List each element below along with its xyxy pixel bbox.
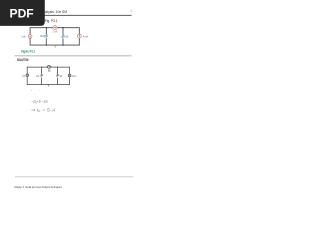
svg-text:4 mA: 4 mA bbox=[83, 35, 88, 39]
svg-text:SOLUTION: SOLUTION bbox=[17, 58, 28, 62]
svg-text:Chapter 3: Nodal and Loop Anal: Chapter 3: Nodal and Loop Analysis Techn… bbox=[14, 185, 62, 189]
svg-text:6 kΩ: 6 kΩ bbox=[65, 34, 68, 38]
svg-text:PDF: PDF bbox=[10, 7, 35, 21]
svg-text:2kΩ: 2kΩ bbox=[48, 69, 51, 73]
svg-text:12 kΩ: 12 kΩ bbox=[40, 34, 45, 38]
svg-text:2mA: 2mA bbox=[22, 75, 25, 78]
svg-text:2 mA: 2 mA bbox=[21, 35, 25, 39]
svg-text:4mA→: 4mA→ bbox=[72, 75, 77, 78]
svg-text:Figure P3.1: Figure P3.1 bbox=[21, 50, 35, 54]
svg-text:6kΩ: 6kΩ bbox=[60, 75, 63, 78]
svg-text:−2I₁+9 −1m: −2I₁+9 −1m bbox=[31, 99, 48, 104]
svg-text:⇒ Iₒ = 5·A: ⇒ Iₒ = 5·A bbox=[31, 107, 56, 113]
svg-text:2 mA: 2 mA bbox=[53, 29, 58, 33]
